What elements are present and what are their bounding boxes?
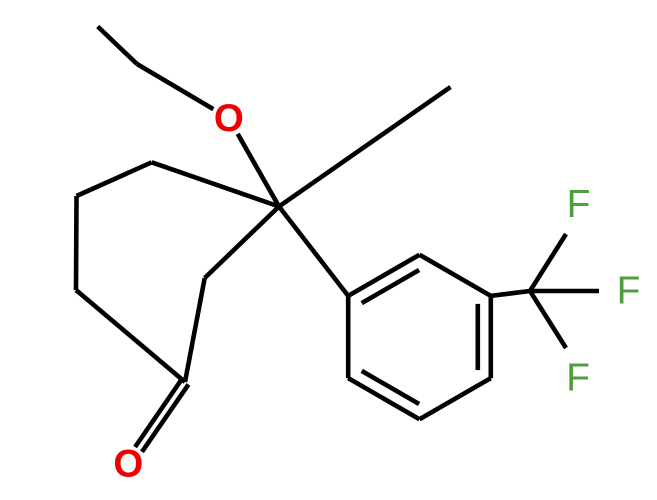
svg-text:F: F [617,270,641,313]
svg-text:O: O [113,443,143,486]
svg-text:F: F [566,357,590,400]
svg-text:F: F [567,183,591,226]
svg-text:O: O [214,97,244,140]
